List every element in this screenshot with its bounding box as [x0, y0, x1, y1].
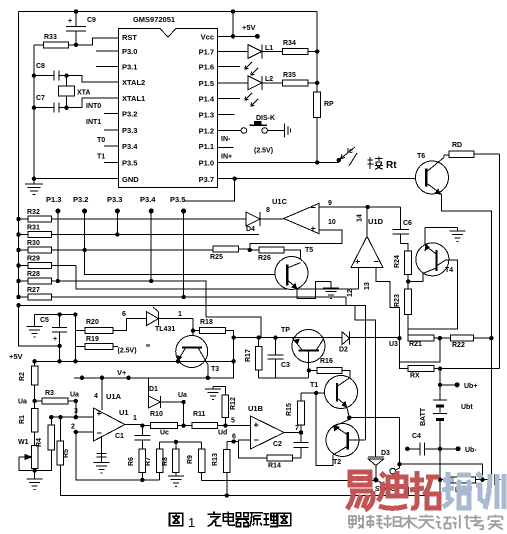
svg-text:+: + — [68, 18, 72, 25]
transistor T4 pnp — [416, 227, 453, 276]
svg-text:R6: R6 — [128, 457, 135, 466]
svg-text:R32: R32 — [27, 209, 40, 216]
node terminal P3.4 — [149, 209, 154, 214]
svg-text:3: 3 — [74, 408, 78, 415]
svg-text:RX: RX — [410, 373, 420, 380]
resistor R25 — [210, 246, 248, 261]
svg-text:R1: R1 — [19, 415, 26, 424]
node Vcc row — [231, 34, 235, 38]
node C8 right — [64, 73, 68, 77]
wire P3.3 stub INT1 — [86, 119, 119, 130]
svg-text:P3.3: P3.3 — [122, 126, 137, 135]
node R24-R23 — [406, 279, 410, 283]
watermark glyph xun blue — [476, 473, 504, 509]
node R4 top — [49, 415, 53, 419]
caption glyph yuan — [250, 513, 263, 527]
svg-text:P1.3: P1.3 — [199, 111, 214, 120]
wire D4 to U1C output — [260, 218, 284, 220]
node C5 bottom — [57, 344, 61, 348]
ground T5 — [323, 282, 339, 299]
wire SW bottom contact link — [396, 488, 409, 496]
svg-text:RST: RST — [122, 33, 137, 42]
wire P1.7 row — [218, 51, 248, 53]
node U1A output — [140, 423, 144, 427]
svg-text:XTAL1: XTAL1 — [122, 94, 145, 103]
svg-text:6: 6 — [232, 434, 236, 441]
svg-text:+: + — [53, 336, 57, 343]
transistor T5 — [275, 247, 313, 299]
svg-text:Ua: Ua — [18, 399, 27, 406]
wire U3 down to RX — [399, 338, 408, 368]
svg-text:V+: V+ — [117, 368, 127, 377]
svg-text:U1A: U1A — [106, 392, 122, 401]
resistor R33 — [44, 34, 69, 48]
wire SW top link — [399, 464, 482, 480]
svg-text:C9: C9 — [87, 17, 96, 24]
svg-text:L1: L1 — [265, 45, 273, 52]
switch SW contact bottom — [390, 485, 396, 491]
wire U1B minus net node6 — [234, 440, 268, 458]
resistor R4 vertical — [35, 417, 55, 470]
capacitor C2 — [273, 433, 309, 459]
arrow Ic — [341, 147, 358, 166]
wire GND row — [34, 178, 119, 180]
capacitor C5 electrolytic — [40, 315, 67, 346]
capacitor C4 — [407, 433, 440, 455]
svg-text:R5: R5 — [63, 449, 70, 458]
wire P1.1 stub — [218, 147, 234, 149]
node Ud — [223, 423, 227, 427]
node Ub+ branch — [438, 383, 442, 387]
resistor RD — [444, 142, 500, 158]
wire U1A output — [125, 424, 142, 426]
svg-text:D3: D3 — [381, 450, 390, 457]
wire T6 emitter to right rail — [441, 194, 491, 481]
node C7 right — [64, 106, 68, 110]
watermark glyph di red — [378, 471, 407, 508]
wire T1 base row — [301, 392, 337, 394]
node Ua D1 — [181, 400, 185, 404]
svg-text:P3.5: P3.5 — [122, 159, 137, 168]
wire R29 step down to U1D pin12 line — [76, 266, 358, 289]
wire U1B output pin7 — [284, 432, 301, 434]
wire stub P3.5 down — [183, 211, 185, 297]
svg-text:T5: T5 — [305, 247, 313, 254]
capacitor C7 — [34, 95, 67, 113]
wire P3.1 stub — [96, 66, 119, 68]
node pin9 junction — [365, 205, 369, 209]
wire P3.5 stub T1 — [97, 154, 119, 163]
switch DIS-K — [241, 115, 281, 133]
wire SW top contact link — [395, 464, 399, 470]
svg-text:P3.2: P3.2 — [122, 110, 137, 119]
node TP drop R16 — [308, 377, 310, 379]
caption figure label glyph tu — [170, 513, 183, 526]
svg-text:7: 7 — [295, 425, 299, 432]
resistor R5 vertical — [57, 417, 225, 495]
svg-text:R23: R23 — [394, 294, 401, 307]
svg-text:P3.4: P3.4 — [140, 195, 156, 204]
svg-text:W1: W1 — [18, 439, 29, 446]
svg-text:U1C: U1C — [272, 197, 288, 206]
node Vcc rail top — [231, 9, 235, 13]
node R20 left top — [73, 312, 77, 316]
svg-text:R31: R31 — [27, 225, 40, 232]
capacitor C6 — [393, 207, 413, 244]
resistor R27 — [19, 287, 347, 300]
caption glyph tu2 — [278, 513, 291, 526]
resistor R19 — [75, 336, 117, 349]
svg-text:P1.0: P1.0 — [199, 159, 214, 168]
wire left +5V rail vertical — [18, 12, 20, 298]
svg-text:13: 13 — [364, 282, 371, 290]
node TP rail left — [231, 335, 235, 339]
wire TP rail — [234, 337, 400, 339]
svg-text:P3.4: P3.4 — [122, 142, 138, 151]
wire T5 emitter to ground — [297, 282, 331, 299]
svg-text:P3.2: P3.2 — [73, 195, 88, 204]
svg-text:R7: R7 — [145, 457, 152, 466]
wire V+ line — [74, 377, 234, 379]
wire C5 bottom to +5V rail — [59, 346, 61, 361]
capacitor C8 — [34, 63, 67, 81]
wire P1.2 row to DIS-K — [218, 130, 242, 132]
wire P3.7 row long — [218, 178, 427, 180]
svg-text:C8: C8 — [36, 63, 45, 70]
ground DIS-K sideways — [281, 124, 291, 138]
svg-text:U3: U3 — [389, 341, 398, 348]
wire rail line to D3 drop — [19, 305, 376, 457]
svg-text:XTAL2: XTAL2 — [122, 78, 145, 87]
wire P3.0 stub — [96, 50, 119, 52]
svg-text:R17: R17 — [245, 349, 252, 362]
svg-text:R10: R10 — [150, 411, 163, 418]
svg-text:XTA: XTA — [77, 90, 90, 97]
svg-text:DIS-K: DIS-K — [256, 115, 275, 122]
svg-text:1: 1 — [188, 515, 195, 530]
node terminal P3.3 — [115, 209, 120, 214]
wire C3 R17 TP bottom line — [259, 377, 309, 379]
node Ic arrow — [337, 158, 341, 162]
node rail R29 — [16, 263, 20, 267]
capacitor C9 — [66, 12, 96, 45]
wire R33 row and RST jog — [34, 38, 119, 45]
node R34 right — [315, 49, 319, 53]
op-amp U1D pointing up — [351, 217, 384, 268]
svg-text:C2: C2 — [273, 441, 282, 448]
wire U1C pin9 row — [319, 206, 401, 208]
wire P1.4 stub — [218, 98, 241, 100]
node RF left — [438, 478, 442, 482]
op-amp U1B — [248, 404, 284, 449]
IC U-GMS97C2051 body — [119, 15, 218, 188]
svg-text:BATT: BATT — [420, 407, 427, 426]
resistor RP vertical — [314, 92, 334, 163]
node R8 top — [174, 440, 178, 444]
transistor TP rotated — [281, 327, 325, 378]
watermark glyph tuo red — [410, 471, 439, 508]
wire R28 line step to R17 top — [51, 281, 260, 338]
ground R8 — [168, 476, 184, 487]
node R13 bottom rail — [225, 493, 229, 497]
wire T4 base link — [408, 273, 423, 281]
node +5V C5leg — [57, 359, 61, 363]
node RX right — [438, 366, 442, 370]
svg-text:P1.6: P1.6 — [199, 63, 214, 72]
node R25-R26 junction — [248, 248, 252, 252]
svg-text:D4: D4 — [246, 226, 255, 233]
ground C5 — [27, 327, 43, 338]
wire P3.2 stub INT0 — [86, 103, 119, 114]
svg-text:R24: R24 — [394, 255, 401, 268]
node R5 top — [58, 415, 62, 419]
resistor R32 — [19, 209, 241, 222]
node D3 discharge — [373, 477, 378, 482]
wire TL431 to R18 corner — [192, 319, 194, 331]
svg-text:T3: T3 — [211, 366, 219, 373]
svg-text:P3.7: P3.7 — [199, 175, 214, 184]
resistor R18 — [193, 319, 234, 338]
svg-text:(2.5V): (2.5V) — [118, 348, 137, 355]
node R35 right — [315, 81, 319, 85]
node Ua left — [32, 399, 36, 403]
wire TP rail riser — [233, 331, 235, 379]
svg-text:8: 8 — [266, 207, 270, 214]
resistor R35 — [282, 72, 317, 86]
wire battery column to RF row — [439, 449, 441, 480]
wire minus input row — [76, 431, 94, 433]
wire Ua to plus input — [75, 401, 77, 417]
svg-text:Ua: Ua — [178, 392, 187, 399]
svg-text:D2: D2 — [339, 347, 348, 354]
svg-text:1: 1 — [178, 311, 182, 318]
resistor R2 vertical — [19, 361, 38, 401]
watermark glyph pei blue — [442, 472, 472, 508]
caption glyph qi — [236, 513, 249, 527]
svg-text:Uc: Uc — [160, 430, 169, 437]
svg-text:R20: R20 — [86, 319, 99, 326]
node U1B out — [299, 430, 303, 434]
svg-text:P3.5: P3.5 — [170, 195, 185, 204]
wire T4 emitter to ground — [425, 226, 458, 228]
regulator TL431 — [146, 307, 193, 333]
caption glyph chong — [208, 512, 222, 527]
resistor R29 — [19, 256, 77, 269]
svg-text:Ud: Ud — [218, 430, 227, 437]
wire U1D pin13 — [376, 268, 400, 339]
svg-text:R2: R2 — [19, 372, 26, 381]
node RP bottom — [315, 160, 319, 164]
svg-text:P1.1: P1.1 — [199, 142, 214, 151]
svg-text:R9: R9 — [187, 455, 194, 464]
wire emitter node to SW column — [349, 418, 399, 465]
wire Ub- stub — [440, 448, 458, 450]
glyph jie — [368, 157, 384, 170]
node +5V R19leg — [73, 359, 77, 363]
resistor R11 — [192, 411, 250, 429]
svg-text:R22: R22 — [452, 342, 465, 349]
node battery C4 — [438, 447, 442, 451]
IC pin labels — [122, 33, 215, 185]
node R21 right — [438, 336, 442, 340]
capacitor C1 — [115, 426, 151, 449]
svg-text:+5V: +5V — [242, 23, 256, 32]
svg-text:Ubt: Ubt — [461, 404, 473, 411]
wire C6 bottom to R24 — [401, 244, 409, 252]
caption glyph li — [264, 513, 278, 526]
node W1 bottom — [32, 468, 36, 472]
svg-text:P1.3: P1.3 — [46, 195, 61, 204]
node C4 left — [405, 447, 409, 451]
node 6 — [232, 439, 236, 443]
wire P1.6 stub — [218, 66, 241, 68]
svg-text:R12: R12 — [230, 397, 237, 410]
watermark glyph yi red — [347, 472, 373, 510]
svg-text:R16: R16 — [320, 358, 333, 365]
svg-text:R21: R21 — [409, 341, 422, 348]
wire D1 node down — [183, 402, 185, 426]
node R16 left — [307, 368, 311, 372]
transistor T3 rotated pnp — [176, 336, 220, 378]
op-amp U1A — [94, 392, 126, 441]
svg-text:R14: R14 — [268, 463, 281, 470]
node rail bottom — [16, 303, 20, 307]
svg-text:P3.0: P3.0 — [122, 47, 137, 56]
svg-text:T1: T1 — [97, 154, 105, 161]
transistor T2 pnp — [326, 420, 359, 467]
wire top +5V rail — [19, 11, 318, 13]
svg-text:P3.3: P3.3 — [107, 195, 122, 204]
node V+ left — [80, 376, 84, 380]
node plus input — [74, 415, 78, 419]
svg-text:T4: T4 — [445, 267, 453, 274]
svg-text:C3: C3 — [281, 362, 290, 369]
svg-text:IN-: IN- — [221, 136, 231, 143]
svg-text:R28: R28 — [27, 271, 40, 278]
node terminal P3.5 — [181, 209, 186, 214]
resistor R14 — [267, 455, 301, 469]
wire stub P3.3 down — [116, 211, 118, 235]
ground T4 — [450, 227, 466, 241]
wire T3 base drop — [192, 331, 194, 347]
node Ua right — [74, 399, 78, 403]
resistor R22 — [451, 335, 492, 349]
svg-text:C1: C1 — [115, 433, 124, 440]
wire plus5 rail lower — [35, 360, 234, 362]
switch SW contact top — [390, 468, 396, 474]
crystal XTA — [59, 76, 91, 108]
wire stub P1.3 down — [57, 211, 59, 281]
svg-text:C4: C4 — [412, 433, 421, 440]
svg-text:T0: T0 — [97, 137, 105, 144]
LED L1 — [245, 45, 282, 76]
node terminal P1.3 — [55, 209, 60, 214]
svg-text:D1: D1 — [149, 386, 158, 393]
svg-text:6: 6 — [122, 311, 126, 318]
node R18 left — [191, 329, 195, 333]
wire LED column vertical — [316, 12, 318, 92]
wire T4 collector — [408, 260, 457, 329]
wire XTAL1 jog — [67, 98, 119, 108]
wire left bias vertical — [33, 45, 35, 179]
node P3.5-R27 — [181, 295, 185, 299]
node rail R30 — [16, 248, 20, 252]
resistor R24 vertical — [394, 251, 412, 281]
node R22 right — [489, 336, 493, 340]
op-amp U1C mirrored — [272, 197, 319, 234]
svg-text:IN+: IN+ — [221, 154, 232, 161]
svg-text:GMS972051: GMS972051 — [133, 15, 175, 24]
svg-text:TP: TP — [281, 327, 290, 334]
wire Ic stub — [317, 161, 339, 163]
svg-text:T1: T1 — [310, 382, 318, 389]
resistor R3 — [35, 390, 76, 404]
wire feedback pin2 down — [76, 432, 160, 480]
wire pin10 loop — [250, 230, 342, 250]
node U3 — [397, 336, 401, 340]
resistor R30 — [19, 240, 214, 253]
wire P3.4 stub T0 — [97, 137, 119, 146]
wire P1.0 row to RP bottom — [218, 161, 318, 163]
svg-text:R35: R35 — [283, 72, 296, 79]
svg-text:R25: R25 — [210, 254, 223, 261]
svg-text:R27: R27 — [27, 287, 40, 294]
ground IC — [25, 179, 43, 195]
svg-text:L2: L2 — [265, 76, 273, 83]
resistor R12 vertical — [213, 386, 237, 425]
capacitor C3 — [268, 338, 291, 378]
node Ub- terminal — [456, 446, 478, 454]
node rail R31 — [16, 232, 20, 236]
resistor R23 vertical — [394, 281, 412, 338]
wire RD right vertical — [498, 154, 500, 368]
LED L2 — [245, 76, 282, 106]
resistor R10 — [142, 411, 192, 429]
wire R21 junction branch — [399, 338, 439, 362]
svg-text:GND: GND — [122, 175, 139, 184]
resistor RX — [408, 366, 499, 380]
node P3.4-R28 — [149, 279, 153, 283]
svg-text:Ic: Ic — [347, 148, 353, 155]
resistor R20 — [75, 311, 146, 333]
diode D3 vertical — [368, 450, 390, 466]
wire C5 top rail — [35, 314, 76, 316]
svg-text:Rt: Rt — [386, 160, 397, 171]
wire left rail to C5 bottom — [19, 305, 60, 346]
resistor R26 — [250, 247, 301, 263]
node rail R32 — [16, 217, 20, 221]
resistor R34 — [282, 40, 317, 55]
diode D4 — [240, 212, 268, 233]
svg-text:INT0: INT0 — [86, 103, 101, 110]
label jie Rt — [386, 160, 397, 171]
diode D2 — [339, 332, 350, 354]
svg-text:P1.2: P1.2 — [199, 127, 214, 136]
watermark subtitle she pin he tian xian she ji zhuan jia — [349, 515, 503, 530]
svg-text:Vcc: Vcc — [201, 33, 214, 42]
label 2.5V node — [118, 343, 151, 355]
node rail R28 — [16, 279, 20, 283]
wire U1D pin12 — [358, 268, 360, 289]
node minus input — [74, 430, 78, 434]
node GND — [32, 177, 36, 181]
svg-text:(2.5V): (2.5V) — [254, 148, 273, 155]
node C5 top — [57, 312, 61, 316]
svg-text:P1.4: P1.4 — [199, 95, 215, 104]
node P1.3-R28 — [56, 279, 60, 283]
wire R20 R19 left vertical — [74, 315, 76, 362]
resistor R8 vertical — [162, 442, 179, 476]
